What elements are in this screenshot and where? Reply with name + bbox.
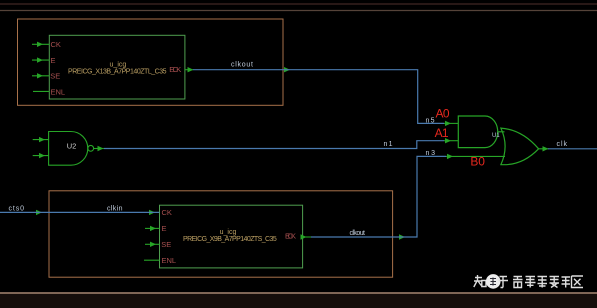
svg-text:ENL: ENL <box>162 256 177 265</box>
svg-text:ENL: ENL <box>51 87 66 96</box>
svg-text:ECK: ECK <box>169 65 181 74</box>
svg-text:PREICG_X9B_A7PP140ZTS_C35: PREICG_X9B_A7PP140ZTS_C35 <box>183 236 277 243</box>
svg-text:B0: B0 <box>470 155 485 169</box>
svg-text:SE: SE <box>50 72 60 81</box>
svg-text:E: E <box>51 56 56 65</box>
svg-text:clkout: clkout <box>231 61 253 68</box>
svg-text:u_icg: u_icg <box>110 62 127 69</box>
svg-text:A1: A1 <box>435 126 449 140</box>
svg-text:n3: n3 <box>426 150 436 157</box>
svg-text:clkout: clkout <box>350 230 366 237</box>
svg-text:ECK: ECK <box>285 232 296 241</box>
svg-text:A0: A0 <box>436 106 450 120</box>
svg-text:clk: clk <box>557 141 568 148</box>
svg-text:n1: n1 <box>384 141 393 148</box>
svg-text:SE: SE <box>161 240 171 249</box>
svg-text:cts0: cts0 <box>9 205 25 212</box>
svg-text:clkin: clkin <box>107 206 123 213</box>
svg-text:U1: U1 <box>492 133 500 139</box>
svg-text:PREICG_X13B_A7PP140ZTL_C35: PREICG_X13B_A7PP140ZTL_C35 <box>68 69 167 76</box>
svg-text:u_icg: u_icg <box>220 229 237 236</box>
svg-text:CK: CK <box>51 40 61 49</box>
svg-text:n5: n5 <box>426 117 435 124</box>
svg-text:U2: U2 <box>67 141 77 150</box>
svg-text:E: E <box>162 224 167 233</box>
svg-text:CK: CK <box>162 208 172 217</box>
